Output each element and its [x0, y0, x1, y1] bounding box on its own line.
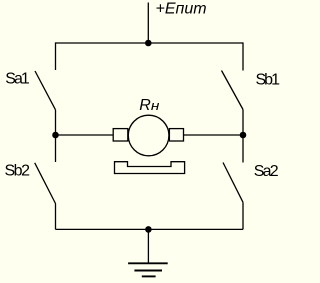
wire: top rail	[56, 42, 244, 44]
switch Sa1	[35, 42, 56, 135]
wire: +E supply vertical drop	[147, 3, 149, 44]
svg-text:Rн: Rн	[139, 97, 159, 114]
node: left mid junction	[52, 132, 59, 139]
switch Sa2	[223, 135, 243, 229]
ground	[128, 263, 168, 276]
svg-text:Sa2: Sa2	[254, 163, 279, 180]
wire: left motor lead	[56, 134, 114, 136]
node: bottom rail / ground junction	[145, 226, 152, 233]
motor M1 armature circle	[128, 115, 169, 156]
wire: right motor lead	[184, 134, 244, 136]
motor M1 left brush	[113, 129, 128, 141]
wire: bottom rail	[56, 228, 244, 230]
svg-text:+Eпит: +Eпит	[156, 1, 207, 18]
node: right mid junction	[240, 132, 247, 139]
motor M1 right brush	[169, 129, 183, 141]
svg-text:Sb1: Sb1	[256, 72, 281, 89]
svg-text:Sa1: Sa1	[5, 70, 30, 87]
motor M1 stator bracket	[115, 162, 185, 174]
node: top rail / supply junction	[145, 40, 152, 47]
switch Sb1	[222, 42, 244, 135]
switch Sb2	[35, 135, 56, 229]
wire: ground drop	[147, 229, 149, 262]
svg-text:Sb2: Sb2	[5, 163, 31, 180]
